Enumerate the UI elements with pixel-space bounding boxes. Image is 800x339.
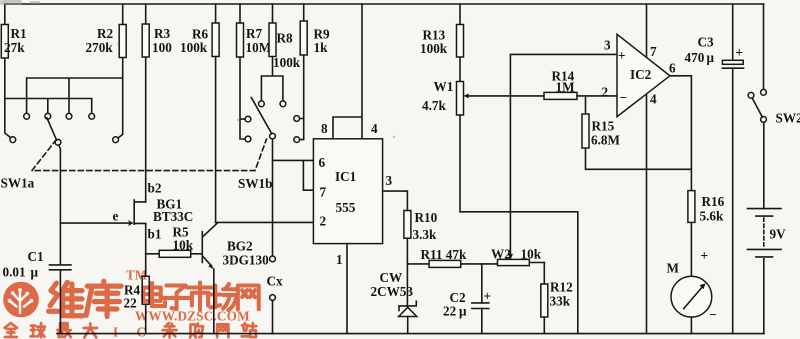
svg-text:IC1: IC1 <box>335 169 356 184</box>
meter M <box>667 248 717 334</box>
svg-text:SW1b: SW1b <box>238 176 272 191</box>
op IC1 555 box <box>313 121 392 267</box>
svg-text:BT33C: BT33C <box>153 209 193 224</box>
hanzi KU <box>86 281 121 316</box>
svg-text:R16: R16 <box>702 194 725 209</box>
wire IC2 pin 4 to ground <box>646 95 648 334</box>
scan smudges (decorative) <box>0 0 395 138</box>
wire collector/R6 node to IC1 pin 2 <box>216 221 314 223</box>
svg-text:2: 2 <box>320 214 327 229</box>
svg-text:CW: CW <box>380 270 403 285</box>
svg-text:e: e <box>113 209 119 224</box>
resistor R12 <box>541 263 573 334</box>
svg-text:C1: C1 <box>28 249 44 264</box>
svg-text:3: 3 <box>386 173 393 188</box>
switch SW1a <box>1 78 123 191</box>
svg-text:10k: 10k <box>521 247 542 262</box>
svg-text:R11 47k: R11 47k <box>421 247 467 262</box>
capacitor C2 <box>443 264 491 334</box>
wire IC2 pin 7 supply <box>646 4 648 57</box>
watermark url text <box>135 309 250 324</box>
svg-text:BG2: BG2 <box>227 239 253 254</box>
svg-text:4.7k: 4.7k <box>422 98 446 113</box>
latin I <box>113 325 118 339</box>
svg-text:SW2: SW2 <box>776 111 800 126</box>
svg-text:+: + <box>701 248 709 263</box>
svg-text:C: C <box>137 325 147 339</box>
svg-text:5.6k: 5.6k <box>700 209 724 224</box>
hanzi CAI <box>163 323 177 338</box>
svg-text:7: 7 <box>320 185 327 200</box>
svg-text:7: 7 <box>650 44 657 59</box>
svg-text:R10: R10 <box>415 210 438 225</box>
diode CW 2CW53 zener <box>371 264 417 334</box>
svg-text:+: + <box>736 45 744 60</box>
resistor R9 <box>300 4 330 140</box>
svg-text:0.01: 0.01 <box>3 265 26 280</box>
svg-text:μ: μ <box>707 50 715 65</box>
wire SW1a wiper column to emitter node <box>59 145 61 265</box>
wire bottom ground bus <box>57 333 764 335</box>
hanzi SHI <box>187 283 213 310</box>
capacitor C1 <box>3 249 71 334</box>
svg-text:2CW53: 2CW53 <box>371 284 414 299</box>
svg-text:3DG130: 3DG130 <box>223 253 270 268</box>
hanzi ZUI <box>58 323 71 337</box>
svg-text:100k: 100k <box>180 40 208 55</box>
wire SW1b wiper column / Cx terminals <box>267 139 284 334</box>
hanzi WANG <box>238 285 259 309</box>
svg-text:1: 1 <box>336 252 343 267</box>
resistor R13 <box>420 4 464 82</box>
svg-text:100k: 100k <box>273 55 301 70</box>
svg-text:2: 2 <box>602 85 609 100</box>
svg-text:100k: 100k <box>420 41 448 56</box>
svg-text:R7: R7 <box>246 26 263 41</box>
TM mark <box>126 268 148 283</box>
latin C <box>137 325 147 339</box>
svg-text:M: M <box>667 261 680 276</box>
svg-text:1M: 1M <box>556 80 576 95</box>
svg-text:4: 4 <box>650 92 657 107</box>
wire emitter line with arrow <box>60 209 133 227</box>
svg-text:1k: 1k <box>314 40 329 55</box>
battery 9V <box>748 122 787 333</box>
svg-text:6.8M: 6.8M <box>591 133 620 148</box>
wire W1 bottom to ground <box>460 115 578 334</box>
svg-text:22: 22 <box>443 304 457 319</box>
svg-text:SW1a: SW1a <box>1 176 35 191</box>
svg-text:270k: 270k <box>86 40 114 55</box>
wire IC1 pin 3 output <box>383 191 408 210</box>
hanzi DIAN <box>143 283 165 306</box>
svg-text:TM: TM <box>126 268 148 283</box>
resistor R14 <box>544 69 617 100</box>
resistor R6 <box>180 4 219 222</box>
dashed mechanical link SW1a-SW1b <box>32 139 267 170</box>
svg-text:+: + <box>618 48 626 63</box>
transistor BG2 3DG130 <box>202 223 269 333</box>
svg-text:10k: 10k <box>173 238 194 253</box>
svg-text:100: 100 <box>152 40 172 55</box>
svg-text:μ: μ <box>459 304 467 319</box>
svg-text:R3: R3 <box>154 26 171 41</box>
svg-text:9V: 9V <box>770 227 787 242</box>
svg-text:R15: R15 <box>592 119 615 134</box>
hanzi QUAN <box>5 323 17 337</box>
svg-text:555: 555 <box>336 200 356 215</box>
hanzi GOU <box>190 323 203 337</box>
switch SW1b <box>238 98 300 192</box>
svg-text:W1: W1 <box>434 79 454 94</box>
svg-text:6: 6 <box>669 61 676 76</box>
svg-text:6: 6 <box>319 155 326 170</box>
svg-text:C3: C3 <box>698 35 715 50</box>
svg-text:R12: R12 <box>550 280 573 295</box>
svg-text:IC2: IC2 <box>630 67 652 82</box>
hanzi ZI <box>163 285 189 308</box>
transistor BG1 BT33C (UJT) <box>134 181 193 254</box>
resistor R4 <box>124 254 150 334</box>
svg-text:470: 470 <box>685 50 705 65</box>
svg-text:μ: μ <box>31 265 39 280</box>
wire IC1 pins 4 and 8 supply feed <box>333 4 362 139</box>
resistor R11 <box>407 247 497 267</box>
hanzi WANG2 <box>217 324 228 337</box>
svg-text:R1: R1 <box>11 26 27 41</box>
wire IC1 pin 1 to ground <box>346 244 348 334</box>
resistor R16 <box>688 191 725 277</box>
hanzi QIU <box>31 323 45 337</box>
switch SW2 <box>748 4 800 126</box>
svg-text:4: 4 <box>371 121 378 136</box>
resistor R1 <box>1 4 26 99</box>
resistor R3 <box>142 4 172 202</box>
svg-text:10M: 10M <box>246 40 272 55</box>
potentiometer W2 <box>491 247 544 266</box>
wire W2 wiper to IC2 pin3 <box>508 54 617 259</box>
resistor R15 <box>582 96 691 169</box>
svg-text:b2: b2 <box>148 181 162 196</box>
svg-text:I: I <box>113 325 118 339</box>
resistor R8 <box>261 4 300 101</box>
svg-text:Cx: Cx <box>267 274 284 289</box>
capacitor C3 <box>685 4 744 334</box>
potentiometer W1 <box>422 79 544 115</box>
hanzi CHANG <box>211 284 237 310</box>
svg-text:−: − <box>620 90 628 105</box>
wire wiper node to IC1 pin 6 and pin 7 <box>273 160 314 190</box>
svg-text:b1: b1 <box>148 227 162 242</box>
svg-text:−: − <box>709 307 717 322</box>
resistor R2 <box>86 4 127 138</box>
resistor R5 <box>146 225 201 258</box>
resistor R10 <box>404 210 438 264</box>
svg-text:+: + <box>484 289 492 304</box>
hanzi WEI <box>49 282 83 315</box>
resistor R7 <box>237 4 272 139</box>
WATERMARK <box>3 268 259 339</box>
svg-text:33k: 33k <box>550 294 571 309</box>
hanzi DA <box>84 323 97 337</box>
svg-text:27k: 27k <box>4 40 25 55</box>
svg-text:3.3k: 3.3k <box>413 227 437 242</box>
hanzi ZHAN <box>242 323 257 337</box>
svg-text:WWW.DZSC.COM: WWW.DZSC.COM <box>135 309 250 324</box>
op-amp IC2 <box>602 34 677 116</box>
svg-text:3: 3 <box>604 38 611 53</box>
svg-text:8: 8 <box>321 121 328 136</box>
svg-text:R2: R2 <box>97 26 114 41</box>
logo disc <box>3 282 39 318</box>
wire top supply bus <box>5 3 764 5</box>
svg-text:R8: R8 <box>277 31 294 46</box>
wire IC2 output pin 6 <box>670 76 692 191</box>
